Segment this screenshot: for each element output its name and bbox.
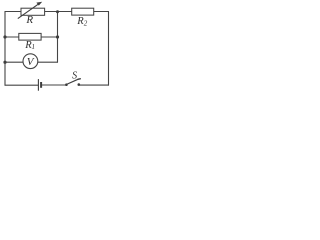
svg-text:1: 1 [32, 43, 36, 51]
svg-text:R: R [25, 14, 33, 26]
svg-text:2: 2 [84, 20, 88, 28]
svg-text:S: S [72, 71, 77, 82]
